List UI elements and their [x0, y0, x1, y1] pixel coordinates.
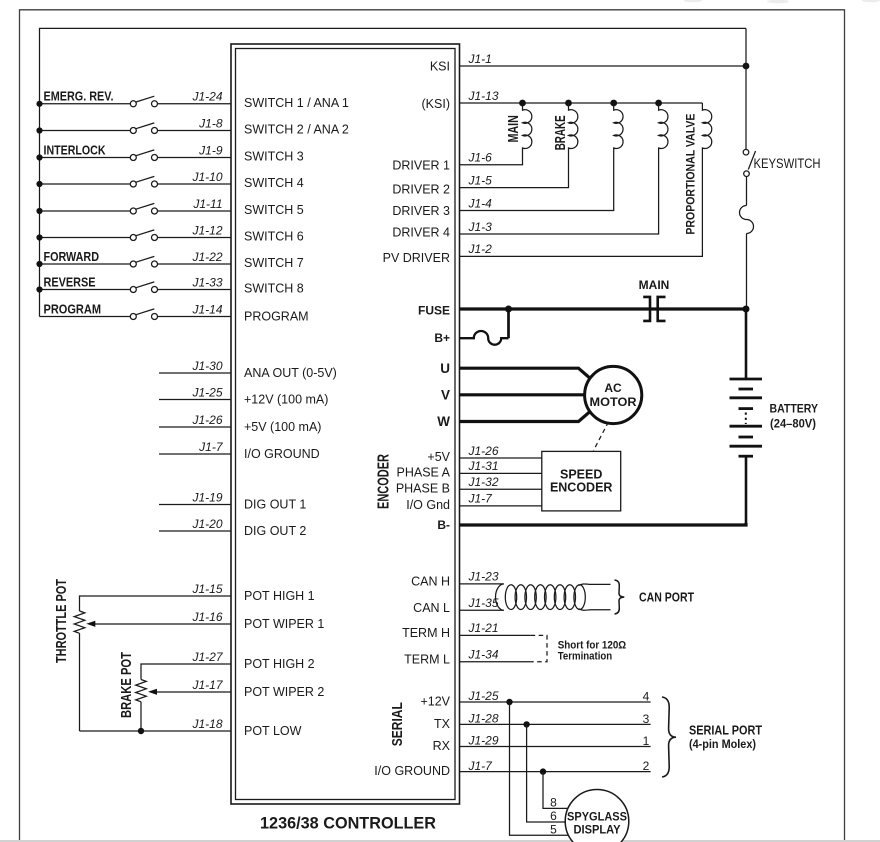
svg-text:J1-13: J1-13: [468, 89, 499, 103]
switch S9: [130, 309, 157, 320]
svg-text:J1-12: J1-12: [191, 223, 222, 237]
node dot coil3: [610, 100, 617, 107]
node dot row1: [36, 101, 42, 107]
coil proportional valve: [460, 103, 712, 256]
svg-text:J1-21: J1-21: [468, 621, 499, 635]
svg-text:J1-18: J1-18: [191, 717, 222, 731]
svg-text:REVERSE: REVERSE: [44, 274, 96, 289]
svg-text:ENCODER: ENCODER: [550, 481, 613, 495]
node dot row4: [36, 181, 42, 187]
wire stub J1-25: [159, 399, 231, 401]
svg-text:+5V (100 mA): +5V (100 mA): [244, 420, 321, 434]
svg-text:SWITCH 7: SWITCH 7: [244, 256, 304, 270]
svg-text:J1-15: J1-15: [191, 582, 222, 596]
svg-text:EMERG. REV.: EMERG. REV.: [44, 89, 114, 104]
switch S6: [130, 230, 157, 241]
svg-text:+5V: +5V: [427, 450, 450, 464]
wire encoder phase A: [460, 472, 542, 474]
svg-text:J1-16: J1-16: [191, 610, 222, 624]
svg-text:TERM H: TERM H: [402, 626, 450, 640]
switch S7: [130, 256, 157, 267]
wire J1-9 row: [40, 157, 131, 159]
wire FUSE thick: [460, 307, 747, 310]
wire spyglass pin8: [543, 772, 568, 809]
svg-text:SWITCH 8: SWITCH 8: [244, 282, 304, 296]
svg-text:ENCODER: ENCODER: [375, 454, 392, 509]
svg-text:+12V (100 mA): +12V (100 mA): [244, 393, 328, 407]
wire battery negative drop: [745, 456, 748, 525]
wire B+ with fuse squiggle: [460, 331, 509, 345]
svg-text:CAN L: CAN L: [413, 601, 450, 615]
wire POT WIPER 1 with arrow: [94, 623, 231, 625]
svg-text:I/O GROUND: I/O GROUND: [374, 764, 450, 778]
svg-text:POT WIPER 2: POT WIPER 2: [244, 685, 324, 699]
svg-text:PV DRIVER: PV DRIVER: [383, 251, 450, 265]
switch S3: [130, 150, 157, 161]
svg-text:FORWARD: FORWARD: [44, 249, 100, 264]
svg-text:(KSI): (KSI): [422, 97, 450, 111]
svg-text:5: 5: [550, 822, 557, 836]
battery B1 plates: [730, 379, 763, 456]
wire serial +12V: [460, 701, 651, 703]
svg-text:FUSE: FUSE: [418, 303, 450, 317]
svg-text:KEYSWITCH: KEYSWITCH: [754, 156, 821, 171]
arrow wiper 2: [148, 689, 157, 695]
svg-text:J1-32: J1-32: [468, 475, 499, 489]
wire serial TX: [460, 723, 651, 725]
wire CAN H: [460, 583, 504, 585]
arrow wiper 1: [86, 621, 95, 627]
wire J1-24 row: [40, 103, 131, 105]
svg-text:1: 1: [643, 734, 650, 748]
wire CAN L: [460, 609, 504, 611]
svg-text:BRAKE: BRAKE: [553, 115, 569, 150]
svg-text:J1-24: J1-24: [191, 90, 222, 104]
svg-text:PHASE A: PHASE A: [397, 466, 451, 480]
switch S2: [130, 123, 157, 134]
switch S1: [130, 96, 157, 107]
switch S8: [130, 282, 157, 293]
wire B+ riser: [507, 309, 510, 338]
wire stub J1-20: [159, 530, 231, 532]
svg-text:J1-22: J1-22: [191, 250, 222, 264]
wire throttle pot bottom: [79, 633, 81, 731]
svg-text:B-: B-: [437, 518, 450, 532]
wire TERM L: [460, 661, 531, 663]
svg-text:J1-20: J1-20: [191, 517, 222, 531]
svg-text:SWITCH 5: SWITCH 5: [244, 203, 304, 217]
node dot coil1: [519, 100, 526, 107]
svg-text:J1-5: J1-5: [468, 173, 493, 187]
svg-text:RX: RX: [433, 739, 451, 753]
wire keyswitch to breaker: [746, 177, 748, 206]
svg-text:J1-3: J1-3: [468, 220, 493, 234]
svg-text:J1-26: J1-26: [468, 444, 499, 458]
wire serial RX: [460, 746, 651, 748]
svg-text:J1-17: J1-17: [191, 678, 223, 692]
wire encoder +5V: [460, 457, 542, 459]
wire stub J1-26: [159, 426, 231, 428]
svg-text:BRAKE POT: BRAKE POT: [119, 652, 135, 718]
svg-text:6: 6: [550, 809, 557, 823]
wire TERM H: [460, 634, 531, 636]
svg-text:AC: AC: [604, 381, 622, 395]
svg-text:SWITCH 2 / ANA 2: SWITCH 2 / ANA 2: [244, 123, 349, 137]
svg-text:DRIVER 3: DRIVER 3: [392, 204, 450, 218]
svg-text:POT HIGH 2: POT HIGH 2: [244, 657, 315, 671]
svg-text:J1-11: J1-11: [192, 197, 222, 211]
wire J1-8 row: [40, 130, 131, 132]
svg-text:CAN H: CAN H: [411, 575, 450, 589]
wire J1-12 row: [40, 237, 131, 239]
svg-text:U: U: [440, 361, 450, 376]
svg-text:PROPORTIONAL VALVE: PROPORTIONAL VALVE: [683, 114, 697, 235]
twisted pair cable: [496, 584, 611, 610]
switch S4: [130, 176, 157, 187]
svg-text:8: 8: [550, 796, 557, 810]
node dot fuse/battery: [743, 306, 750, 313]
wire battery positive drop: [745, 309, 748, 379]
wire J1-13 coil bus: [460, 102, 703, 104]
svg-text:Termination: Termination: [558, 650, 613, 662]
node dot J1-1/keyswitch: [743, 63, 750, 70]
svg-text:J1-25: J1-25: [468, 689, 499, 703]
svg-text:1236/38 CONTROLLER: 1236/38 CONTROLLER: [260, 814, 436, 833]
svg-text:+12V: +12V: [420, 695, 450, 709]
resistor throttle pot: [74, 611, 85, 633]
svg-text:J1-23: J1-23: [468, 570, 499, 584]
svg-text:DRIVER 4: DRIVER 4: [392, 225, 450, 239]
svg-text:J1-31: J1-31: [468, 459, 499, 473]
wire POT LOW: [80, 730, 232, 732]
coil driver4: [460, 103, 668, 234]
svg-text:MOTOR: MOTOR: [590, 395, 637, 409]
wire stub J1-19: [159, 504, 231, 506]
svg-text:SWITCH 6: SWITCH 6: [244, 230, 304, 244]
wire J1-22 row: [40, 263, 131, 265]
svg-text:J1-6: J1-6: [468, 151, 493, 165]
wire stub J1-30: [159, 372, 231, 374]
wire W phase: [460, 410, 593, 422]
resistor brake pot: [136, 680, 147, 702]
svg-text:ANA OUT (0-5V): ANA OUT (0-5V): [244, 366, 337, 380]
svg-text:J1-4: J1-4: [468, 196, 493, 210]
node dot coil2: [565, 100, 572, 107]
svg-text:J1-10: J1-10: [191, 170, 222, 184]
dashed termination short: [531, 635, 547, 661]
svg-text:SWITCH 3: SWITCH 3: [244, 150, 304, 164]
node dot row6: [36, 234, 42, 240]
svg-text:PHASE B: PHASE B: [396, 482, 450, 496]
svg-text:J1-28: J1-28: [468, 711, 499, 725]
svg-text:DISPLAY: DISPLAY: [574, 823, 621, 837]
brace CAN port: [615, 580, 625, 614]
node dot coil4: [655, 100, 662, 107]
wire stub J1-7: [159, 453, 231, 455]
wire encoder phase B: [460, 488, 542, 490]
dashed link motor-encoder: [594, 422, 609, 451]
box SPEED ENCODER: [542, 451, 621, 511]
svg-text:I/O Gnd: I/O Gnd: [406, 498, 450, 512]
svg-text:J1-1: J1-1: [468, 52, 492, 66]
keyswitch contacts: [743, 149, 755, 176]
svg-text:J1-19: J1-19: [191, 490, 222, 504]
wire POT WIPER 2 with arrow: [156, 691, 231, 693]
svg-text:3: 3: [643, 712, 650, 726]
svg-text:SWITCH 1 / ANA 1: SWITCH 1 / ANA 1: [244, 96, 349, 110]
node dot row2: [36, 127, 42, 133]
coil MAIN contactor coil: [460, 103, 532, 165]
node dot row8: [36, 286, 42, 292]
wire J1-33 row: [40, 289, 131, 291]
wire brake pot bottom: [140, 702, 142, 731]
svg-text:J1-7: J1-7: [198, 440, 224, 454]
svg-text:V: V: [441, 387, 450, 402]
circuit breaker squiggle: [740, 206, 754, 234]
wire serial ground: [460, 771, 651, 773]
svg-text:2: 2: [643, 759, 650, 773]
svg-text:THROTTLE POT: THROTTLE POT: [54, 579, 70, 663]
coil BRAKE: [460, 103, 578, 188]
wire B- thick: [460, 523, 747, 525]
switch S5: [130, 203, 157, 214]
svg-text:J1-27: J1-27: [191, 650, 223, 664]
wire U phase: [460, 368, 593, 380]
node dot serial +12V: [506, 699, 512, 705]
svg-text:MAIN: MAIN: [639, 278, 670, 292]
svg-text:CAN PORT: CAN PORT: [639, 589, 694, 604]
svg-text:DRIVER 2: DRIVER 2: [392, 183, 450, 197]
wire encoder gnd: [460, 505, 542, 507]
wire J1-10 row: [40, 183, 131, 185]
coil driver3: [460, 103, 624, 211]
svg-text:SWITCH 4: SWITCH 4: [244, 176, 304, 190]
svg-text:W: W: [437, 414, 450, 429]
wire POT HIGH 1: [80, 596, 232, 611]
svg-text:PROGRAM: PROGRAM: [244, 310, 309, 324]
svg-text:J1-33: J1-33: [191, 275, 222, 289]
svg-text:SPEED: SPEED: [560, 468, 602, 482]
svg-text:SERIAL: SERIAL: [390, 702, 406, 746]
svg-text:J1-25: J1-25: [191, 385, 222, 399]
wire spyglass pin5: [510, 702, 569, 835]
wire breaker to battery node: [746, 234, 748, 310]
svg-text:POT HIGH 1: POT HIGH 1: [244, 589, 315, 603]
node dot row3: [36, 154, 42, 160]
wire J1-11 row: [40, 210, 131, 212]
svg-text:J1-30: J1-30: [191, 359, 222, 373]
svg-text:J1-29: J1-29: [468, 733, 499, 747]
svg-text:KSI: KSI: [430, 60, 450, 74]
svg-text:SERIAL PORT: SERIAL PORT: [689, 723, 762, 738]
svg-text:J1-26: J1-26: [191, 413, 222, 427]
svg-text:I/O GROUND: I/O GROUND: [244, 447, 320, 461]
svg-text:SPYGLASS: SPYGLASS: [567, 810, 627, 824]
svg-text:J1-34: J1-34: [468, 648, 499, 662]
svg-text:BATTERY: BATTERY: [770, 402, 819, 416]
svg-text:J1-2: J1-2: [468, 242, 493, 256]
svg-text:DIG OUT 2: DIG OUT 2: [244, 524, 306, 538]
svg-text:MAIN: MAIN: [506, 115, 522, 143]
svg-text:B+: B+: [434, 331, 450, 345]
wire J1-14 row: [40, 316, 131, 318]
svg-text:TX: TX: [434, 717, 451, 731]
svg-text:J1-7: J1-7: [468, 759, 494, 773]
svg-text:INTERLOCK: INTERLOCK: [44, 142, 106, 157]
node dot row5: [36, 208, 42, 214]
svg-text:TERM L: TERM L: [404, 653, 450, 667]
svg-text:J1-14: J1-14: [191, 302, 222, 316]
brace serial port: [662, 697, 676, 777]
display U2 SPYGLASS circle: [565, 790, 629, 842]
controller inner box: [236, 49, 456, 800]
svg-text:J1-8: J1-8: [198, 116, 223, 130]
svg-text:DRIVER 1: DRIVER 1: [392, 158, 450, 172]
contactor MAIN tips: [643, 297, 665, 321]
wire V phase: [460, 393, 585, 396]
node dot row7: [36, 261, 42, 267]
node dot serial TX: [523, 721, 529, 727]
svg-text:POT LOW: POT LOW: [244, 724, 302, 738]
svg-text:J1-9: J1-9: [198, 143, 223, 157]
wire keyswitch upper: [745, 28, 747, 149]
left bus wire: [40, 28, 747, 316]
svg-text:(24–80V): (24–80V): [770, 416, 816, 430]
svg-text:PROGRAM: PROGRAM: [44, 301, 102, 316]
svg-text:J1-35: J1-35: [468, 596, 499, 610]
svg-text:POT WIPER 1: POT WIPER 1: [244, 617, 324, 631]
svg-text:J1-7: J1-7: [468, 492, 494, 506]
node dot pot low: [138, 728, 144, 734]
wire spyglass pin6: [527, 724, 566, 822]
motor M1 AC MOTOR: [585, 366, 642, 423]
svg-text:4: 4: [643, 689, 650, 703]
svg-text:(4-pin Molex): (4-pin Molex): [689, 739, 756, 751]
battery cell dots: [745, 413, 747, 425]
controller outer box: [231, 44, 460, 804]
node dot serial ground: [540, 768, 546, 774]
wire POT HIGH 2: [141, 664, 231, 680]
wire J1-1 KSI: [460, 65, 747, 67]
svg-text:DIG OUT 1: DIG OUT 1: [244, 498, 306, 512]
node dot fuse/B+: [505, 306, 512, 313]
